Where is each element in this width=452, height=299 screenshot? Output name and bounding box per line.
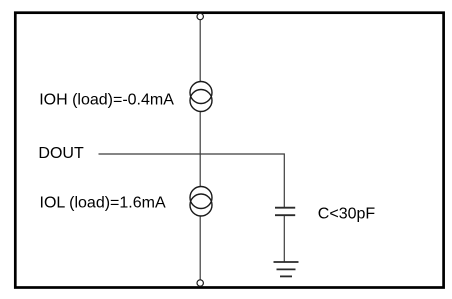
svg-text:C<30pF: C<30pF: [318, 205, 376, 222]
svg-text:IOH (load)=-0.4mA: IOH (load)=-0.4mA: [39, 92, 174, 109]
svg-text:IOL (load)=1.6mA: IOL (load)=1.6mA: [40, 194, 166, 211]
svg-text:DOUT: DOUT: [38, 145, 84, 162]
